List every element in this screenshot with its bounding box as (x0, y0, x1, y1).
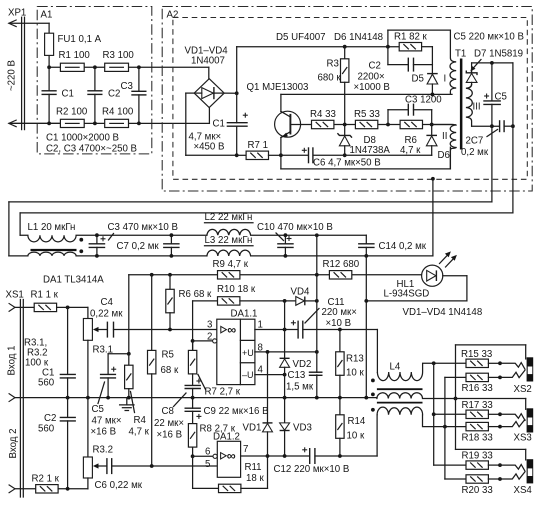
capacitor C7 (0.2uF) (163, 233, 180, 257)
node R5 bottom / pin5 (150, 464, 154, 468)
opamp DA1.1 (213, 319, 255, 384)
opamp DA1.2 labels (205, 432, 248, 471)
transformer T1 winding I (450, 30, 456, 94)
capacitor C10 label (257, 222, 333, 241)
wire pin3 row (114, 329, 217, 331)
resistor R5 (68k vert) (148, 275, 156, 466)
capacitor C2 (2200pF snubber) (388, 47, 433, 72)
resistor R1 (input 1k) (15, 303, 88, 311)
capacitor C1 (A1) (42, 67, 57, 123)
node winding B / gnd rail (364, 396, 368, 400)
resistor R4 (4.7k vert) (125, 354, 133, 398)
wire primary return rail (281, 147, 451, 169)
capacitor C1 (A2) labels (189, 119, 225, 153)
resistor R16 (33) (466, 373, 502, 381)
wire C6 row (emitter return) (281, 154, 432, 156)
svg-text:C5 220 мк×10 В: C5 220 мк×10 В (454, 32, 524, 43)
node R4 bottom (127, 396, 131, 400)
wire snubber bypass top (388, 30, 451, 47)
capacitor C11 (220uF) (291, 320, 303, 338)
transformer L4 winding A (377, 363, 466, 380)
svg-text:XP1: XP1 (8, 8, 26, 19)
svg-text:R7 2,7 к: R7 2,7 к (205, 387, 241, 398)
svg-text:R13: R13 (346, 354, 364, 365)
svg-text:II: II (442, 131, 447, 142)
svg-text:I: I (444, 74, 447, 85)
wire pin7 row (241, 455, 378, 457)
svg-text:R4 33: R4 33 (310, 109, 336, 120)
svg-text:1,5 мк: 1,5 мк (286, 382, 314, 393)
svg-text:L-934SGD: L-934SGD (384, 289, 430, 300)
svg-text:2: 2 (207, 332, 212, 343)
svg-text:D6 1N4148: D6 1N4148 (334, 32, 383, 43)
capacitor C3 (470uF filter) (89, 233, 106, 257)
svg-text:C1 1000×2000 В: C1 1000×2000 В (46, 133, 119, 144)
svg-text:XS4: XS4 (514, 485, 533, 496)
svg-text:R20 33: R20 33 (462, 485, 493, 496)
capacitor C4 (0.22uF) (107, 322, 113, 338)
wire sleeve bus XS3 (456, 399, 526, 410)
wire C12 row to L4 (376, 415, 378, 456)
node C13 bottom gnd (315, 396, 319, 400)
svg-text:C3 1200: C3 1200 (405, 95, 442, 106)
node 2C7 right (511, 124, 515, 128)
inductor L3 (207, 250, 433, 256)
node D8 bottom (343, 153, 347, 157)
transformer T1 core (460, 59, 463, 150)
resistor R7 (2.7k vert) (188, 341, 196, 386)
node dots AC top row (47, 65, 141, 69)
wire pin5 row (112, 465, 217, 467)
node pin8 / VD1 (266, 350, 270, 354)
transformer L4 winding C (377, 407, 466, 427)
node R3 top (343, 45, 347, 49)
diode D5 (427, 65, 438, 95)
node R4/R5/D8 (343, 123, 347, 127)
node C11 right / R13 (338, 328, 342, 332)
svg-text:C6 0,22 мк: C6 0,22 мк (95, 480, 143, 491)
jack XS2 socket (527, 357, 534, 381)
node C14 bottom (364, 254, 368, 258)
node VD3 top gnd (283, 396, 287, 400)
svg-text:R5: R5 (162, 350, 174, 361)
wire shield stub (431, 177, 435, 256)
svg-text:T1: T1 (455, 49, 466, 60)
svg-text:R19 33: R19 33 (462, 451, 493, 462)
svg-text:R3.2: R3.2 (93, 445, 113, 456)
capacitor C8 labels (154, 393, 186, 441)
resistor R5 (33) (355, 120, 377, 128)
capacitor C2 560 labels (38, 413, 56, 435)
svg-text:L2 22 мкГн: L2 22 мкГн (205, 212, 253, 223)
svg-text:D5: D5 (412, 74, 424, 85)
opamp DA1.1 labels (207, 309, 264, 381)
XP1 connector double bar (22, 17, 25, 129)
node R5/R6/C3 (386, 123, 390, 127)
svg-text:C14 0,2 мк: C14 0,2 мк (379, 241, 427, 252)
resistor R3 labels (318, 59, 342, 84)
inductor L2 label (205, 212, 254, 223)
LED HL1 labels (384, 279, 430, 300)
resistor R13 (10k vert) (336, 330, 344, 415)
resistor R18 (33) (466, 422, 502, 430)
inductor L1 core (31, 249, 77, 251)
svg-text:VD1–VD4 1N4148: VD1–VD4 1N4148 (403, 307, 483, 318)
wire bridge minus loop to R7 row (186, 93, 237, 155)
fuse FU1 (45, 23, 54, 67)
capacitor C5 47uF labels (91, 382, 122, 438)
svg-text:R1 100: R1 100 (59, 50, 91, 61)
capacitor C1 560 labels (38, 368, 55, 389)
svg-text:R10 18 к: R10 18 к (217, 284, 256, 295)
svg-text:R11: R11 (245, 462, 262, 473)
resistor R20 (33) (466, 475, 502, 483)
capacitor C2 (A1) (87, 67, 102, 123)
potentiometer R3.1 (83, 307, 107, 397)
resistor R17 (33) (466, 410, 502, 418)
wire LED gnd vertical (365, 256, 367, 398)
capacitor C3 (A1) (131, 67, 146, 123)
svg-text:DA1 TL3414A: DA1 TL3414A (43, 275, 104, 286)
svg-text:C5: C5 (92, 404, 104, 415)
jack XS2 contacts (500, 363, 525, 378)
svg-text:R9 4,7 к: R9 4,7 к (213, 259, 249, 270)
node pin4 / VD2 (283, 373, 287, 377)
wire C11/C13 vertical (316, 235, 318, 397)
svg-text:+U: +U (242, 348, 254, 358)
zener D8 labels (350, 135, 391, 156)
node bridge plus (235, 91, 239, 95)
svg-text:R3 100: R3 100 (103, 50, 135, 61)
node R13/R14 gnd (338, 396, 342, 400)
svg-text:Q1 MJE13003: Q1 MJE13003 (247, 82, 309, 93)
capacitor C13 labels (286, 370, 314, 393)
wire inner +5V rail (20, 213, 513, 235)
svg-text:68 к: 68 к (161, 365, 179, 376)
wire pin2 row (193, 340, 213, 342)
node C1 560 bottom (66, 396, 70, 400)
svg-text:10 к: 10 к (347, 431, 365, 442)
XS1 connector double bar (20, 300, 23, 498)
svg-text:C3: C3 (121, 81, 133, 92)
wire pin6 row (193, 455, 213, 457)
jack XS4 socket (527, 459, 534, 483)
node D5 anode / collector (431, 93, 435, 97)
resistor R14 labels (347, 416, 366, 442)
svg-text:XS3: XS3 (514, 433, 532, 444)
svg-text:4: 4 (258, 365, 264, 376)
node R14 bottom / pin7 row (338, 454, 342, 458)
diode VD3 (280, 423, 290, 456)
svg-text:C1: C1 (213, 119, 225, 130)
capacitor C3 (1200) (388, 104, 432, 125)
resistor R7 2.7k label (198, 375, 241, 398)
jack XS4 contacts (500, 465, 525, 480)
svg-text:×16 В: ×16 В (91, 427, 117, 438)
capacitor C3 (470uF) label (108, 222, 178, 240)
svg-text:1N4007: 1N4007 (191, 56, 225, 67)
capacitor C12 (220uF) (302, 447, 315, 464)
svg-text:C9 22 мк×16 В: C9 22 мк×16 В (204, 406, 269, 417)
resistor R6 labels (400, 135, 421, 156)
svg-text:7: 7 (243, 444, 248, 455)
node snubber tap (386, 45, 390, 49)
node dots AC bottom row (47, 122, 141, 126)
svg-text:R3: R3 (327, 59, 339, 70)
node C5 top (490, 61, 494, 65)
XS1 pin 1 chevron (9, 303, 15, 311)
svg-text:1N4738А: 1N4738А (350, 145, 391, 156)
diode D6 (426, 125, 437, 156)
resistor R12 (680) (329, 271, 351, 279)
LED HL1 light arrows (440, 251, 457, 267)
node VD4 right (315, 299, 319, 303)
svg-text:C13: C13 (288, 370, 306, 381)
diode VD2 (280, 301, 290, 375)
resistor R7 (1 Ohm) (237, 151, 281, 159)
arrow D7 pointer (470, 60, 481, 72)
node C11 branch plus rail (315, 273, 319, 277)
svg-text:–U: –U (242, 370, 254, 380)
svg-text:C12 220 мк×10 В: C12 220 мк×10 В (274, 464, 350, 475)
svg-text:R4: R4 (134, 415, 147, 426)
diode D7 schottky (466, 63, 477, 85)
node pin1 / VD branch (283, 328, 287, 332)
capacitor C5 (220uF) (483, 63, 501, 126)
svg-text:2200×: 2200× (358, 72, 385, 83)
resistor R4 (33) (312, 120, 334, 128)
wire pin4 row (255, 374, 285, 376)
resistor R2 (A1) (60, 119, 84, 127)
transformer T1 winding III (466, 85, 472, 127)
wire gnd right vertical (491, 126, 493, 202)
XP1 arrow pin bottom (9, 120, 61, 127)
svg-text:A1: A1 (41, 10, 53, 21)
node C8/C9 gnd (191, 396, 195, 400)
LED HL1 (422, 265, 443, 286)
wire D7 cathode rail (472, 62, 513, 64)
svg-text:680 к: 680 к (318, 73, 342, 84)
node winding B out (454, 397, 458, 401)
node tap/R4 (127, 352, 131, 356)
resistor R6 (4.7k) (400, 120, 422, 128)
wire Q1 collector row (281, 93, 452, 95)
jack XS3 socket (527, 408, 534, 432)
svg-text:Вход 1: Вход 1 (7, 346, 18, 376)
wire bridge top lead (208, 67, 210, 79)
svg-text:5: 5 (205, 459, 210, 470)
label R3.1 R3.2 100k stack (24, 338, 49, 369)
wire LED cathode loop (366, 276, 467, 301)
svg-text:22 мк×: 22 мк× (154, 418, 184, 429)
node R5 top tap (150, 273, 154, 277)
node tip bus R17 (432, 412, 436, 416)
svg-text:C2: C2 (369, 61, 381, 72)
module A1 box (37, 7, 152, 154)
svg-text:C2: C2 (108, 89, 120, 100)
wire plus rail DA1 (129, 275, 422, 354)
svg-text:VD4: VD4 (291, 287, 310, 298)
node winding C out (443, 425, 447, 429)
svg-text:560: 560 (38, 378, 55, 389)
resistor R2 (input 1k) (15, 485, 88, 493)
svg-text:C2: C2 (44, 413, 56, 424)
capacitor C2 labels (354, 61, 390, 94)
resistor R1 (82k) (399, 43, 432, 65)
node pin8 / C13 branch (315, 350, 319, 354)
wire pin8 row (255, 351, 317, 353)
svg-text:R5 33: R5 33 (354, 109, 380, 120)
bridge rectifier VD1-VD4 label (185, 46, 229, 67)
node pin2 / divider (191, 339, 195, 343)
resistor R11 labels (245, 462, 265, 484)
svg-text:4,7 к: 4,7 к (129, 427, 150, 438)
capacitor C6 (4.7uF 50V) (302, 147, 313, 163)
resistor R3 (A1) (105, 63, 129, 71)
svg-text:DA1.1: DA1.1 (231, 309, 258, 320)
wire secondary bottom row (472, 125, 513, 127)
svg-text:~220 В: ~220 В (7, 60, 18, 91)
svg-text:D5 UF4007: D5 UF4007 (276, 32, 326, 43)
svg-text:C5: C5 (495, 92, 507, 103)
svg-text:VD1: VD1 (243, 423, 262, 434)
svg-text:C6 4,7 мк×50 В: C6 4,7 мк×50 В (313, 158, 381, 169)
svg-text:C7 0,2 мк: C7 0,2 мк (117, 241, 160, 252)
svg-text:R18 33: R18 33 (462, 433, 493, 444)
svg-text:R17 33: R17 33 (462, 400, 493, 411)
svg-text:L3 22 мкГн: L3 22 мкГн (205, 235, 253, 246)
resistor R14 (10k vert) (336, 415, 344, 456)
svg-text:D7 1N5819: D7 1N5819 (474, 49, 523, 60)
wire AC bottom row (9, 122, 209, 124)
svg-text:R1 82 к: R1 82 к (394, 32, 428, 43)
wire bridge plus lead (224, 92, 237, 94)
wire +5V right vertical (512, 63, 514, 213)
svg-text:FU1 0,1 А: FU1 0,1 А (58, 34, 102, 45)
svg-text:L4: L4 (390, 362, 401, 373)
capacitor C11 labels (305, 297, 357, 329)
node pin6 / R8 (191, 454, 195, 458)
svg-text:47 мк×: 47 мк× (92, 416, 122, 427)
svg-text:DA1.2: DA1.2 (213, 432, 240, 443)
potentiometer R3.2 (83, 398, 107, 489)
svg-text:R15 33: R15 33 (461, 349, 492, 360)
node R6 bottom / pin3 (168, 328, 172, 332)
capacitor C8 (22uF) (185, 379, 202, 409)
wire sleeve bus XS4 (456, 399, 526, 460)
XP1 arrow pin top (9, 20, 49, 27)
svg-text:×16 В: ×16 В (157, 430, 183, 441)
svg-text:∞: ∞ (227, 323, 236, 337)
svg-text:Вход 2: Вход 2 (8, 429, 19, 459)
wire sleeve bus XS2 (456, 345, 526, 399)
resistor R5 68k labels (161, 350, 179, 377)
svg-text:D6: D6 (438, 150, 450, 161)
node C5 bottom (490, 124, 494, 128)
svg-text:R7 1: R7 1 (248, 140, 268, 151)
capacitor C9 (22uF) (185, 408, 202, 423)
svg-text:C3 470 мк×10 В: C3 470 мк×10 В (108, 222, 178, 233)
resistor R4 labels (129, 392, 150, 438)
resistor R8 (2.7k vert) (188, 424, 196, 457)
resistor R15 (33) (466, 359, 502, 367)
label D5 D6 types (276, 32, 383, 43)
resistor R11 (18k) (219, 456, 268, 493)
svg-text:C8: C8 (162, 406, 174, 417)
capacitor C2 (560) (60, 398, 76, 489)
capacitor C1 (A2 bulk 4.7uF) (227, 113, 248, 156)
svg-text:×1000 В: ×1000 В (354, 82, 390, 93)
module A2 box (162, 7, 532, 192)
node C11 branch top (315, 233, 319, 237)
resistor R10 (18k) (218, 297, 240, 305)
node input1 / C1 (66, 306, 70, 310)
resistor R9 (4.7k) (218, 271, 240, 279)
wire ring bus vertical (445, 377, 466, 479)
wire R10 branch (193, 301, 218, 351)
wire feedback to R11 (193, 456, 219, 488)
wire Q1 base row (312, 124, 454, 126)
wire Vin+ vertical (236, 47, 238, 123)
XS1 pin 3 chevron (9, 485, 15, 493)
node C2 560 bottom (66, 487, 70, 491)
svg-text:2C7: 2C7 (466, 136, 484, 147)
capacitor C10 (470uF) (277, 233, 294, 257)
transistor Q1 MJE13003 (275, 94, 312, 168)
capacitor C13 (1.5uF) (309, 372, 323, 375)
capacitor 2C7 (500, 120, 505, 132)
XS1 pin 2 chevron (9, 393, 15, 401)
wire pin1 row / C11 (255, 330, 378, 373)
inductor L3 label (205, 235, 254, 246)
ground symbol (120, 398, 134, 411)
svg-text:L1 20 мкГн: L1 20 мкГн (28, 222, 76, 233)
svg-text:0,22 мк: 0,22 мк (90, 309, 123, 320)
transformer L4 winding B (377, 393, 456, 399)
svg-text:18 к: 18 к (246, 473, 264, 484)
node C5 bottom (106, 396, 110, 400)
wire gnd mid rail (15, 397, 377, 399)
svg-text:R12 680: R12 680 (323, 259, 360, 270)
transformer L4 core (377, 389, 423, 402)
node winding A out (432, 361, 436, 365)
node R6/D6 (430, 123, 434, 127)
svg-text:C2, C3 4700×~250 В: C2, C3 4700×~250 В (46, 144, 137, 155)
diode VD4 (240, 297, 317, 306)
svg-text:100 к: 100 к (25, 358, 49, 369)
L1 polarity dots (79, 238, 83, 253)
opamp DA1.2 (213, 441, 241, 477)
capacitor C4 labels (90, 297, 123, 320)
resistor R13 labels (346, 354, 364, 379)
svg-text:XS1: XS1 (6, 290, 24, 301)
svg-text:C1: C1 (62, 89, 74, 100)
svg-text:×450 В: ×450 В (194, 142, 225, 153)
svg-text:×10 В: ×10 В (326, 318, 352, 329)
wire AC top row (49, 66, 209, 68)
svg-text:VD2: VD2 (293, 359, 312, 370)
svg-text:0,2 мк: 0,2 мк (461, 147, 489, 158)
node VD4 left (283, 299, 287, 303)
svg-text:R16 33: R16 33 (462, 383, 493, 394)
wire outer gnd rail (9, 202, 492, 256)
node C1- / R7 (235, 153, 239, 157)
wire C5/R4 tap row (108, 354, 129, 375)
svg-text:R2 1 к: R2 1 к (32, 474, 60, 485)
resistor R1 (A1) (60, 63, 84, 71)
svg-text:XS2: XS2 (514, 384, 532, 395)
resistor R3 (680k) (341, 47, 349, 136)
